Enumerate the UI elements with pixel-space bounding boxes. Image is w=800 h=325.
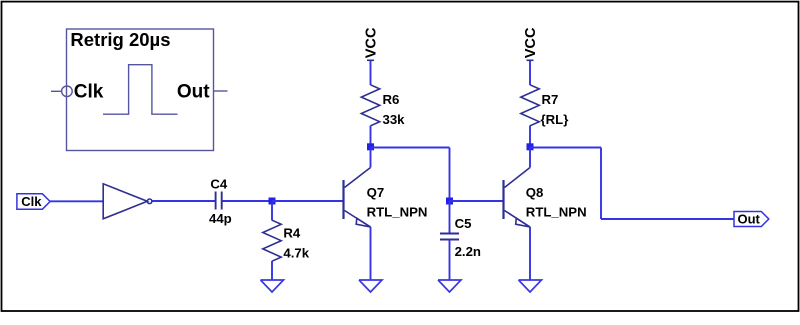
capacitor C4 [216,192,222,210]
wire corner to Out port [601,218,734,220]
ground (Q8) [519,280,542,292]
svg-text:44p: 44p [209,211,232,226]
resistor R7 [521,85,539,126]
wire C5 column down to node C [449,148,451,202]
svg-text:VCC: VCC [523,27,539,58]
svg-text:Out: Out [177,82,210,103]
svg-text:RTL_NPN: RTL_NPN [367,204,428,219]
power VCC (R6) [364,27,380,60]
ground (R4) [261,280,284,292]
svg-text:C4: C4 [210,177,228,192]
node D junction [527,143,534,150]
transistor Q7 [344,168,371,228]
power VCC (R7) [523,27,539,60]
svg-text:Q7: Q7 [367,185,385,200]
port Clk [17,194,50,209]
transistor Q8 [504,168,531,228]
wire inverter to C4 [152,200,215,202]
wire Q7 emitter to ground [370,227,372,280]
ground (Q7) [359,280,382,292]
wire node C to C5 [449,201,451,234]
svg-text:{RL}: {RL} [541,112,569,127]
resistor R6 [361,85,379,126]
wire corner down [600,148,602,220]
svg-text:2.2n: 2.2n [455,244,481,259]
wire R6 to node B [370,126,372,148]
svg-text:RTL_NPN: RTL_NPN [526,204,587,219]
wire R4 to ground [271,261,273,280]
inverter A1 [103,184,152,219]
node C junction [446,198,453,205]
wire Q8 collector [529,148,531,168]
wire node B to C5 column [371,147,450,149]
svg-text:Retrig 20µs: Retrig 20µs [70,29,170,50]
wire node A to Q7 base [272,200,343,202]
retrig pulse symbol [103,65,178,115]
svg-text:Out: Out [738,212,761,227]
wire R7 to node D [529,126,531,148]
wire VCC to R6 [370,61,372,85]
wire node D to corner [530,147,601,149]
svg-text:Clk: Clk [74,82,104,103]
svg-text:R6: R6 [383,92,400,107]
svg-text:Q8: Q8 [526,185,544,200]
wire node A to R4 [271,201,273,220]
wire Clk port to inverter [50,200,103,202]
svg-text:VCC: VCC [364,27,380,58]
svg-text:R7: R7 [542,92,559,107]
retrig one-shot block body [67,29,214,151]
wire node C to Q8 base [450,200,503,202]
svg-text:33k: 33k [383,112,406,127]
retrig block pin Out [214,90,228,92]
port Out [734,212,769,227]
svg-text:C5: C5 [455,216,472,231]
svg-text:4.7k: 4.7k [283,245,309,260]
ground (C5) [438,280,461,292]
wire VCC to R7 [529,61,531,85]
wire Q7 collector [370,148,372,168]
node A junction [269,198,276,205]
resistor R4 [263,220,281,261]
retrig block pin Clk [51,86,72,97]
wire C5 to ground [449,240,451,281]
wire Q8 emitter to ground [529,227,531,280]
capacitor C5 [440,234,459,240]
svg-text:Clk: Clk [21,194,42,209]
node B junction [367,143,374,150]
wire C4 to node A [223,200,273,202]
svg-text:R4: R4 [283,226,301,241]
